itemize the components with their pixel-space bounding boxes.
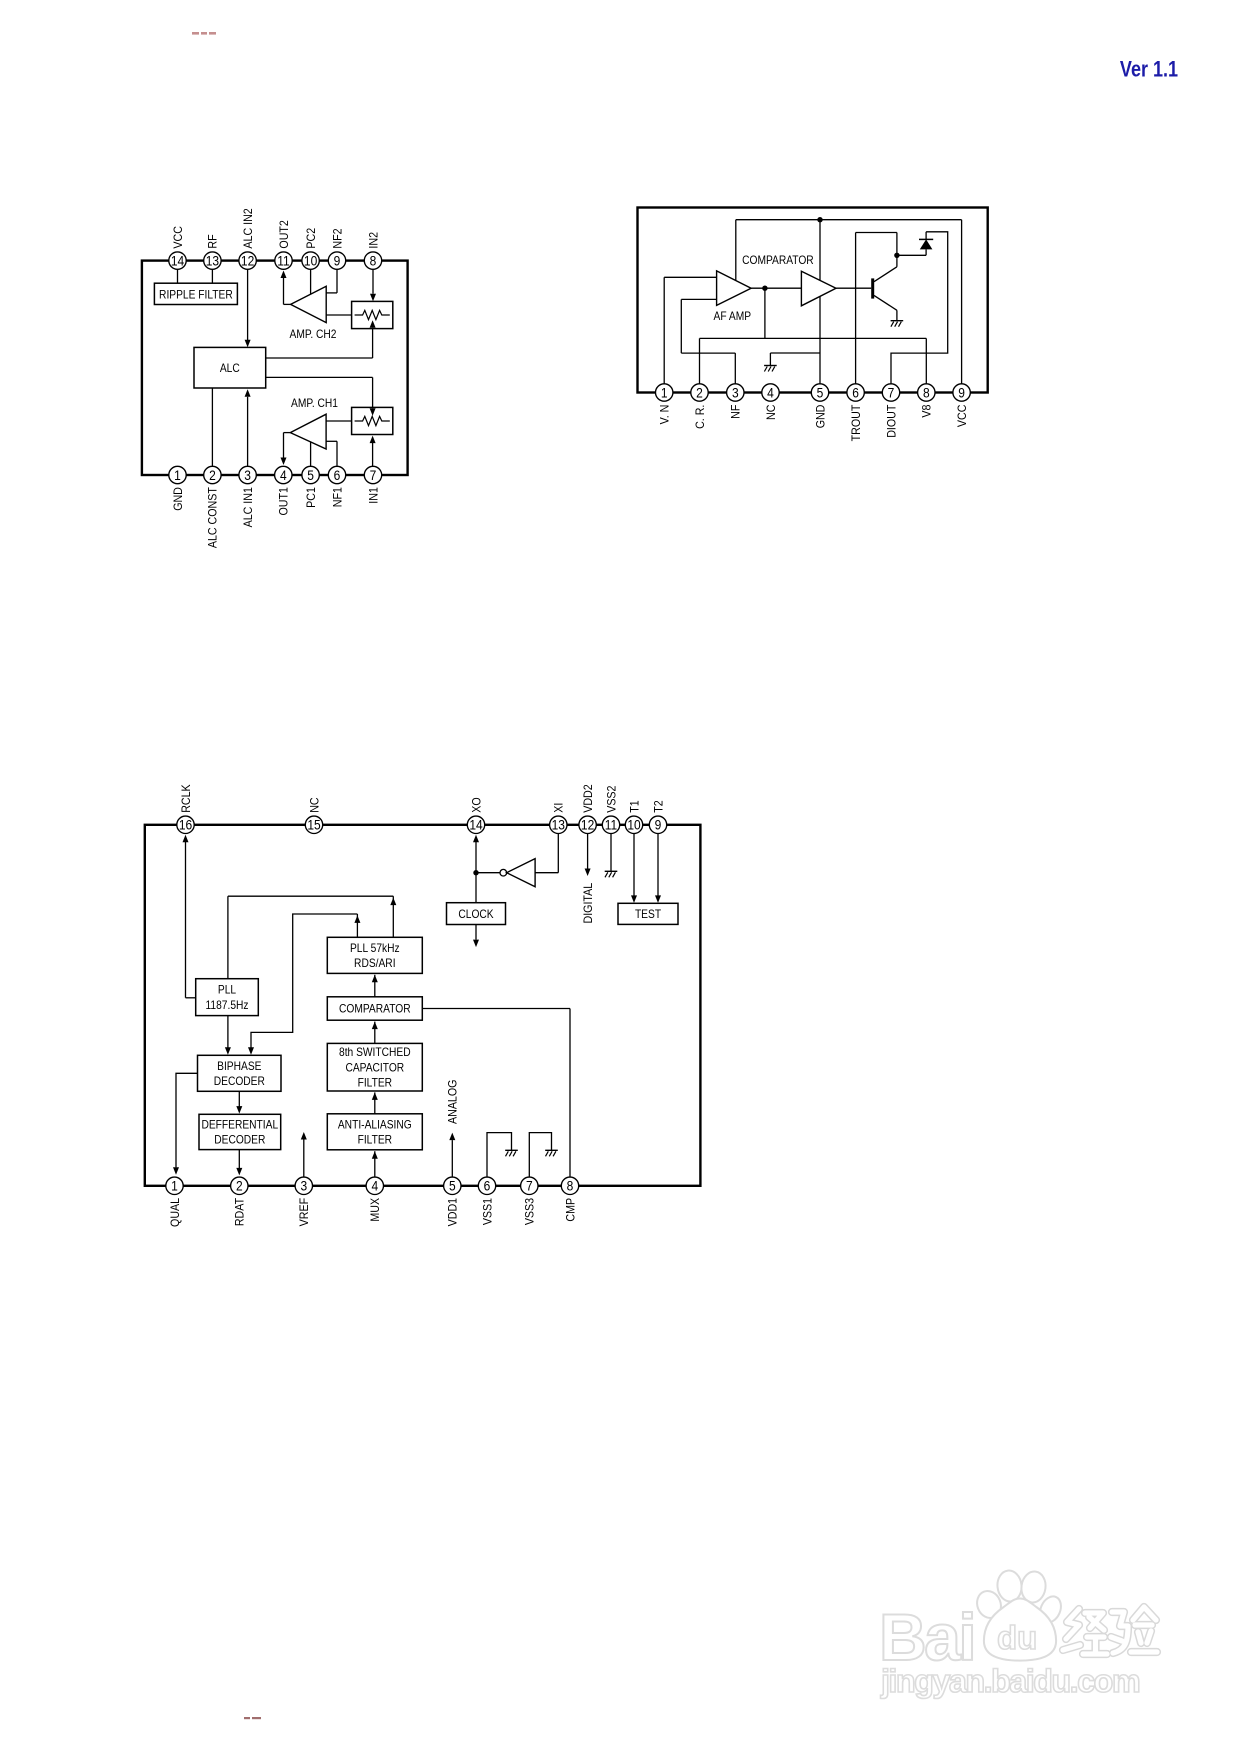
svg-text:RDAT: RDAT bbox=[234, 1198, 247, 1226]
svg-text:ALC IN1: ALC IN1 bbox=[242, 487, 255, 527]
svg-text:VSS2: VSS2 bbox=[606, 786, 619, 813]
svg-text:7: 7 bbox=[888, 385, 895, 401]
svg-text:9: 9 bbox=[958, 385, 965, 401]
svg-text:4: 4 bbox=[280, 467, 287, 483]
svg-text:GND: GND bbox=[172, 487, 185, 511]
svg-text:XO: XO bbox=[471, 797, 484, 813]
svg-text:5: 5 bbox=[307, 467, 314, 483]
svg-text:RIPPLE FILTER: RIPPLE FILTER bbox=[159, 289, 233, 302]
svg-text:Ver 1.1: Ver 1.1 bbox=[1120, 58, 1178, 82]
svg-text:1187.5Hz: 1187.5Hz bbox=[205, 999, 248, 1012]
svg-text:7: 7 bbox=[526, 1178, 533, 1194]
svg-text:CMP: CMP bbox=[565, 1198, 578, 1222]
svg-text:10: 10 bbox=[304, 253, 317, 269]
svg-text:NF: NF bbox=[730, 405, 743, 419]
svg-text:4: 4 bbox=[767, 385, 774, 401]
svg-text:11: 11 bbox=[605, 817, 617, 833]
svg-text:3: 3 bbox=[732, 385, 739, 401]
svg-text:QUAL: QUAL bbox=[169, 1198, 182, 1227]
svg-text:12: 12 bbox=[581, 817, 594, 833]
svg-text:IN1: IN1 bbox=[368, 487, 381, 504]
svg-text:du: du bbox=[997, 1619, 1037, 1656]
svg-text:2: 2 bbox=[236, 1178, 243, 1194]
svg-text:ALC: ALC bbox=[220, 363, 240, 376]
svg-text:NC: NC bbox=[765, 405, 778, 420]
svg-text:FILTER: FILTER bbox=[358, 1134, 393, 1147]
svg-text:DECODER: DECODER bbox=[214, 1134, 265, 1147]
svg-text:9: 9 bbox=[334, 253, 341, 269]
svg-text:IN2: IN2 bbox=[368, 232, 381, 249]
svg-text:1: 1 bbox=[174, 467, 181, 483]
svg-text:7: 7 bbox=[370, 467, 377, 483]
svg-text:jingyan.baidu.com: jingyan.baidu.com bbox=[880, 1663, 1139, 1699]
svg-text:ALC CONST: ALC CONST bbox=[207, 487, 220, 548]
svg-text:6: 6 bbox=[484, 1178, 491, 1194]
svg-text:AMP. CH2: AMP. CH2 bbox=[290, 328, 337, 341]
svg-text:V. N: V. N bbox=[659, 405, 672, 425]
svg-text:BIPHASE: BIPHASE bbox=[217, 1060, 261, 1073]
svg-text:PLL: PLL bbox=[218, 984, 236, 997]
svg-text:6: 6 bbox=[334, 467, 341, 483]
svg-text:FILTER: FILTER bbox=[358, 1077, 393, 1090]
svg-text:CLOCK: CLOCK bbox=[458, 908, 494, 921]
svg-text:8: 8 bbox=[370, 253, 377, 269]
svg-text:PC1: PC1 bbox=[305, 487, 318, 508]
svg-text:VSS1: VSS1 bbox=[482, 1198, 495, 1225]
svg-text:3: 3 bbox=[244, 467, 251, 483]
svg-text:12: 12 bbox=[241, 253, 254, 269]
svg-text:15: 15 bbox=[307, 817, 320, 833]
svg-text:DEFFERENTIAL: DEFFERENTIAL bbox=[201, 1119, 278, 1132]
svg-text:MUX: MUX bbox=[370, 1198, 383, 1222]
svg-text:5: 5 bbox=[817, 385, 824, 401]
svg-text:5: 5 bbox=[449, 1178, 456, 1194]
svg-text:NF1: NF1 bbox=[332, 487, 345, 507]
svg-text:RF: RF bbox=[207, 234, 220, 248]
svg-text:14: 14 bbox=[171, 253, 184, 269]
svg-text:COMPARATOR: COMPARATOR bbox=[339, 1003, 411, 1016]
svg-text:ANTI-ALIASING: ANTI-ALIASING bbox=[338, 1119, 412, 1132]
svg-text:VCC: VCC bbox=[172, 226, 185, 249]
svg-text:1: 1 bbox=[171, 1178, 178, 1194]
svg-text:6: 6 bbox=[852, 385, 859, 401]
svg-text:VDD1: VDD1 bbox=[447, 1198, 460, 1226]
svg-text:CAPACITOR: CAPACITOR bbox=[345, 1062, 404, 1075]
svg-text:VCC: VCC bbox=[956, 405, 969, 428]
svg-text:TEST: TEST bbox=[635, 909, 661, 922]
svg-text:AMP. CH1: AMP. CH1 bbox=[291, 398, 338, 411]
svg-text:NF2: NF2 bbox=[332, 228, 345, 248]
svg-text:8th SWITCHED: 8th SWITCHED bbox=[339, 1047, 411, 1060]
svg-text:VDD2: VDD2 bbox=[582, 784, 595, 812]
svg-text:16: 16 bbox=[179, 817, 192, 833]
svg-text:2: 2 bbox=[696, 385, 703, 401]
svg-text:RDS/ARI: RDS/ARI bbox=[354, 958, 395, 971]
svg-text:VSS3: VSS3 bbox=[524, 1198, 537, 1225]
svg-text:AF AMP: AF AMP bbox=[714, 310, 752, 323]
svg-text:XI: XI bbox=[553, 803, 566, 813]
svg-text:8: 8 bbox=[567, 1178, 574, 1194]
svg-text:9: 9 bbox=[655, 817, 662, 833]
svg-text:14: 14 bbox=[469, 817, 482, 833]
svg-text:VREF: VREF bbox=[299, 1198, 312, 1227]
svg-text:13: 13 bbox=[206, 253, 219, 269]
svg-text:DECODER: DECODER bbox=[214, 1076, 265, 1089]
svg-text:13: 13 bbox=[552, 817, 565, 833]
svg-text:8: 8 bbox=[923, 385, 930, 401]
svg-text:2: 2 bbox=[209, 467, 216, 483]
svg-text:T1: T1 bbox=[629, 800, 642, 812]
svg-text:T2: T2 bbox=[653, 800, 666, 812]
svg-text:V8: V8 bbox=[921, 405, 934, 418]
svg-text:DIOUT: DIOUT bbox=[886, 405, 899, 438]
svg-text:4: 4 bbox=[371, 1178, 378, 1194]
svg-text:OUT1: OUT1 bbox=[278, 487, 291, 515]
svg-text:COMPARATOR: COMPARATOR bbox=[742, 254, 814, 267]
svg-text:RCLK: RCLK bbox=[180, 784, 193, 813]
svg-text:C. R.: C. R. bbox=[694, 405, 707, 429]
svg-text:ALC IN2: ALC IN2 bbox=[242, 208, 255, 248]
svg-text:DIGITAL: DIGITAL bbox=[582, 883, 595, 924]
svg-text:NC: NC bbox=[309, 797, 322, 812]
svg-text:TROUT: TROUT bbox=[850, 405, 863, 442]
svg-text:10: 10 bbox=[627, 817, 640, 833]
svg-text:PC2: PC2 bbox=[305, 228, 318, 249]
svg-text:OUT2: OUT2 bbox=[278, 220, 291, 248]
svg-text:ANALOG: ANALOG bbox=[447, 1080, 460, 1124]
svg-text:1: 1 bbox=[661, 385, 668, 401]
svg-text:GND: GND bbox=[815, 405, 828, 429]
svg-text:11: 11 bbox=[277, 253, 289, 269]
svg-text:3: 3 bbox=[300, 1178, 307, 1194]
svg-text:PLL 57kHz: PLL 57kHz bbox=[350, 942, 400, 955]
